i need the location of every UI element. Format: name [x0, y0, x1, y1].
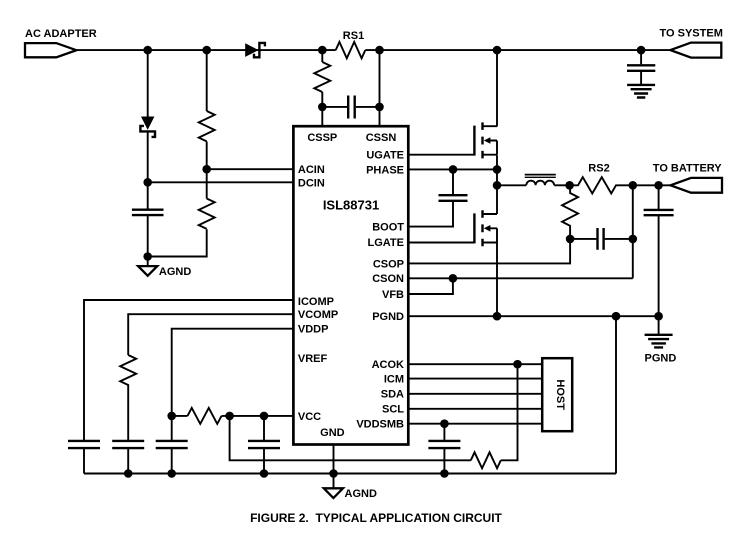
wire: R7 to ACOK line: [501, 364, 518, 460]
wire: top rail branch to Q1 drain: [496, 50, 498, 126]
connector J3 TO BATTERY: [653, 162, 723, 192]
wire: Q1 source to phase node: [496, 155, 498, 185]
node: CSSP/CSSN cap junctions: [318, 103, 327, 112]
wire: GND pin stub: [333, 445, 335, 474]
capacitor C4 (system output): [627, 50, 655, 84]
transistor Q1 (high-side N-MOSFET): [474, 122, 497, 158]
wire: VCC line: [172, 415, 295, 417]
capacitor C6 (sense filter) leads: [570, 238, 633, 240]
wire: CSSP branch x=322.3: [321, 50, 323, 127]
wire: ACIN line: [207, 168, 295, 170]
node: adapter rail junctions: [143, 46, 152, 55]
capacitor C6 plates: [598, 228, 604, 250]
wire: VDDSMB line: [407, 423, 542, 425]
svg-text:RS1: RS1: [343, 30, 364, 42]
HOST box: [542, 358, 572, 431]
svg-text:ICOMP: ICOMP: [298, 296, 334, 308]
wire: RS1 right to TO SYSTEM connector: [365, 49, 670, 51]
wire: VCOMP route: [128, 314, 294, 355]
node: VFB/CSON junction: [449, 274, 458, 283]
wire: RS2 right branch down to CSON: [632, 185, 634, 278]
wire: VFB jog to CSON: [407, 278, 453, 294]
diode D2 (Schottky, vertical, to AGND): [140, 117, 155, 137]
ground earth (system output): [627, 85, 655, 98]
op-amp U1 ISL88731 charger IC box: [293, 126, 408, 444]
wire: D2 cathode down to DCIN node and cap C2: [147, 131, 149, 256]
resistor R1 (CSSP filter, vertical): [314, 62, 330, 92]
node: VCC line junctions: [167, 412, 176, 421]
wire: VDDP route: [172, 329, 295, 416]
svg-text:TO BATTERY: TO BATTERY: [653, 162, 723, 174]
wire: CSSP-CSSN cap C3 leads: [322, 106, 379, 108]
resistor RS2 (battery current sense): [570, 162, 671, 193]
junction node dots: [124, 46, 663, 478]
svg-text:CSSN: CSSN: [366, 132, 397, 144]
svg-text:VCOMP: VCOMP: [298, 309, 338, 321]
wire: DCIN line: [148, 181, 295, 183]
svg-text:RS2: RS2: [588, 162, 609, 174]
wire: PGND drop to AGND rail: [615, 316, 617, 473]
wire: AGND stub upper: [147, 257, 149, 267]
wire: AC adapter rail (top, y=50): [76, 49, 335, 51]
svg-text:LGATE: LGATE: [368, 237, 404, 249]
wire: AGND bottom rail: [84, 473, 616, 475]
ground AGND (bottom): [324, 474, 377, 501]
ground PGND symbol: [645, 316, 677, 365]
capacitor C10 (VDDP/VCC): [156, 416, 188, 474]
diode D1 (Schottky, horizontal): [245, 43, 265, 57]
capacitor C7 (battery output): [644, 185, 674, 316]
svg-text:VREF: VREF: [298, 353, 328, 365]
svg-text:PGND: PGND: [645, 353, 677, 365]
svg-text:TO SYSTEM: TO SYSTEM: [660, 28, 723, 40]
resistor R2 (ACIN divider top, vertical): [199, 111, 215, 141]
svg-text:ACOK: ACOK: [372, 359, 404, 371]
wire: PHASE line: [407, 168, 497, 170]
svg-text:PGND: PGND: [372, 311, 404, 323]
svg-text:VDDSMB: VDDSMB: [356, 419, 404, 431]
svg-text:ISL88731: ISL88731: [323, 198, 379, 213]
wire: ICM line: [407, 378, 542, 380]
resistor R5 (VCOMP compensation, vertical): [120, 355, 136, 440]
resistor R4 (CSOP filter, vertical): [562, 185, 578, 239]
wire: Q2 source to PGND line: [496, 243, 498, 317]
wire: CSSN branch x=379.5: [379, 50, 381, 127]
node: sense filter junctions: [566, 235, 575, 244]
node: ACIN junction: [202, 165, 211, 174]
transistor Q2 (low-side N-MOSFET): [474, 210, 497, 246]
node: ACOK junction: [513, 360, 522, 369]
wire: CSOP route: [407, 239, 570, 264]
capacitor C12 (VDDSMB): [428, 424, 460, 474]
resistor RS1 (current sense, horizontal): [336, 42, 366, 58]
wire: VCC branch down and over to ACOK pull-up: [230, 416, 471, 460]
capacitor C5 (BOOT bootstrap): [407, 169, 467, 226]
svg-text:CSSP: CSSP: [307, 132, 337, 144]
node: upper AGND junction: [143, 252, 152, 261]
svg-text:AGND: AGND: [345, 488, 377, 500]
capacitor C3 (between CSSP and CSSN): [348, 96, 355, 119]
svg-text:SCL: SCL: [382, 404, 404, 416]
svg-text:GND: GND: [320, 427, 345, 439]
resistor R3 (ACIN divider bottom, vertical): [199, 199, 215, 229]
node: PGND junctions: [493, 312, 502, 321]
wire: PGND line: [407, 315, 658, 317]
wire: adapter branch down to diode D2: [147, 50, 149, 116]
svg-text:UGATE: UGATE: [366, 150, 404, 162]
svg-text:VCC: VCC: [298, 411, 321, 423]
wire: ICOMP route: [84, 300, 294, 440]
svg-text:VDDP: VDDP: [298, 324, 329, 336]
svg-text:DCIN: DCIN: [298, 177, 325, 189]
capacitor C9 (VCOMP): [112, 441, 144, 474]
svg-text:HOST: HOST: [554, 379, 566, 410]
node: DCIN junction: [143, 178, 152, 187]
node: phase / boot junctions: [449, 165, 458, 174]
resistor R6 (VCC filter, horizontal): [188, 408, 222, 424]
svg-text:ACIN: ACIN: [298, 164, 325, 176]
wire: UGATE lead: [407, 154, 475, 156]
capacitor C11 (VCC decoupling): [248, 416, 280, 474]
svg-text:SDA: SDA: [381, 389, 404, 401]
svg-text:FIGURE 2. TYPICAL APPLICATION: FIGURE 2. TYPICAL APPLICATION CIRCUIT: [250, 511, 502, 525]
wire: LGATE lead: [407, 242, 475, 244]
svg-text:AC ADAPTER: AC ADAPTER: [25, 28, 97, 40]
svg-text:BOOT: BOOT: [372, 222, 404, 234]
ground AGND (upper left): [138, 266, 191, 278]
inductor L1: [497, 175, 570, 186]
wire: ACOK line: [407, 363, 542, 365]
resistor R7 (ACOK pull-up, horizontal): [471, 452, 501, 468]
wire: CSON line: [407, 277, 633, 279]
wire: Q2 drain to phase node: [496, 185, 498, 214]
wire: SCL line: [407, 408, 542, 410]
node: AGND rail junctions: [124, 469, 133, 478]
wire: DCIN node to AGND rail segment: [148, 229, 207, 256]
svg-text:AGND: AGND: [159, 266, 191, 278]
svg-text:PHASE: PHASE: [366, 164, 404, 176]
svg-text:VFB: VFB: [382, 289, 404, 301]
svg-text:ICM: ICM: [384, 373, 404, 385]
svg-text:CSON: CSON: [372, 273, 404, 285]
connector J1 AC ADAPTER: [25, 28, 97, 57]
capacitor C2 (DCIN to AGND): [132, 210, 164, 215]
connector J2 TO SYSTEM: [660, 28, 723, 58]
wire: resistor divider branch x=206.7: [206, 50, 208, 198]
node: VDDSMB junction: [440, 419, 449, 428]
wire: SDA line: [407, 393, 542, 395]
svg-text:CSOP: CSOP: [373, 258, 404, 270]
capacitor C8 (ICOMP): [68, 441, 100, 474]
node: inductor output / RS2 junctions: [565, 181, 574, 190]
